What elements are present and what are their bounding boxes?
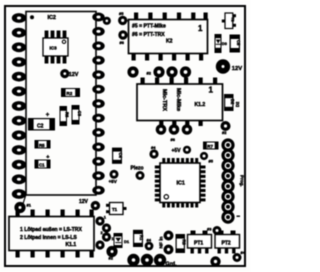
svg-text:NF in: NF in	[158, 236, 164, 248]
pad #3	[207, 226, 222, 235]
svg-text:+: +	[46, 155, 49, 161]
ground pads row	[127, 254, 166, 266]
transistor T1	[106, 203, 127, 215]
pad 2	[101, 223, 112, 234]
svg-text:1: 1	[198, 24, 203, 33]
12V pad (inside IC2 box)	[60, 69, 79, 78]
12V pad (below IC2 box right)	[79, 199, 100, 210]
svg-text:#5: #5	[119, 11, 124, 16]
12V pad (top right)	[216, 59, 242, 73]
svg-text:+5V: +5V	[172, 148, 182, 154]
transistor T2	[222, 13, 236, 29]
svg-text:C5: C5	[236, 40, 241, 46]
pad 1 (right of K1.1)	[95, 215, 106, 226]
svg-text:12V: 12V	[232, 66, 242, 72]
wire pad #5 to K2	[123, 20, 129, 22]
resistor R1	[133, 230, 144, 247]
svg-text:#4: #4	[241, 250, 246, 255]
capacitor C3	[72, 105, 82, 125]
svg-text:C2: C2	[37, 123, 44, 129]
svg-text:#2: #2	[147, 71, 152, 76]
pad 3	[102, 232, 115, 241]
svg-text:Mic-TRX: Mic-TRX	[161, 89, 167, 111]
svg-text:T2: T2	[231, 17, 236, 22]
NF pads pair	[164, 231, 174, 255]
svg-text:R2: R2	[66, 91, 72, 96]
svg-text:#5: #5	[209, 159, 214, 164]
svg-text:#1: #1	[27, 203, 32, 208]
IC3 (SO-8)	[43, 31, 68, 64]
svg-text:#6 = PTT-TRX: #6 = PTT-TRX	[132, 32, 165, 38]
resistor R5	[35, 140, 51, 149]
svg-text:Prog.: Prog.	[240, 175, 245, 187]
+5V pad (left)	[109, 170, 119, 184]
svg-text:Mic-Mike: Mic-Mike	[175, 88, 181, 111]
svg-text:R5: R5	[39, 143, 45, 148]
pad #2 (big, below D1)	[106, 246, 117, 261]
left solder-pad column (13 pads)	[12, 13, 26, 199]
resistor R2	[61, 88, 80, 97]
trimmer PT1	[188, 231, 212, 254]
svg-text:1: 1	[209, 86, 214, 95]
resistor R3	[176, 234, 187, 253]
svg-text:IC1: IC1	[177, 181, 185, 187]
Piezo pad	[136, 171, 145, 180]
IC2 pin-1 dot	[30, 15, 34, 19]
svg-text:#5 = PTT-Mike: #5 = PTT-Mike	[132, 24, 166, 30]
resistor R7	[203, 142, 219, 150]
connector K1.1 box	[9, 210, 94, 258]
svg-text:K1.1: K1.1	[66, 242, 77, 248]
wire from IC2 box to pad #1	[22, 195, 26, 207]
pad #6	[118, 30, 127, 45]
pad #5 (right of IC1)	[200, 152, 214, 164]
diode D1	[114, 233, 130, 248]
svg-text:C4: C4	[118, 153, 123, 159]
connector K2 box	[129, 13, 208, 61]
pad #4 (NF)	[145, 238, 154, 251]
svg-text:D1: D1	[124, 239, 130, 244]
pad #4 (bottom right)	[233, 250, 246, 262]
+5V pad (top of IC1)	[172, 146, 192, 154]
diode D3	[215, 34, 228, 53]
svg-text:PT2: PT2	[222, 241, 231, 247]
svg-text:Grd.: Grd.	[166, 262, 178, 268]
connector K1.2 box	[137, 78, 223, 127]
capacitor C2	[28, 113, 55, 131]
IC2 module box	[26, 12, 96, 196]
pads below K1.2	[156, 124, 193, 135]
svg-text:12V: 12V	[69, 72, 79, 78]
svg-text:Piezo: Piezo	[131, 165, 144, 171]
svg-text:#2: #2	[109, 256, 114, 261]
svg-text:12V: 12V	[79, 199, 89, 205]
pad 4	[95, 240, 104, 249]
svg-text:+5V: +5V	[109, 179, 118, 184]
Prog header pads	[221, 138, 234, 223]
via pad (right of pad column row 1)	[103, 17, 111, 25]
svg-text:+: +	[46, 113, 50, 119]
right solder-pad column (13 pads)	[92, 13, 104, 195]
svg-text:R7: R7	[207, 144, 213, 149]
capacitor C4	[112, 148, 123, 164]
svg-text:D3: D3	[222, 41, 228, 46]
svg-text:K1.2: K1.2	[195, 102, 206, 108]
svg-text:T1: T1	[112, 207, 118, 212]
pads row above K1.2	[127, 66, 191, 77]
svg-text:#6: #6	[171, 137, 176, 142]
IC1 (QFP)	[155, 158, 206, 208]
svg-text:1 Lötpad außen = LS-TRX: 1 Lötpad außen = LS-TRX	[20, 227, 82, 233]
svg-text:C3: C3	[77, 111, 82, 117]
svg-text:PT1: PT1	[194, 241, 203, 247]
svg-text:#3: #3	[207, 227, 212, 232]
svg-text:R6: R6	[65, 112, 70, 118]
svg-text:C1: C1	[39, 163, 45, 168]
pad (bottom centre-right)	[210, 256, 220, 266]
capacitor C1	[35, 155, 51, 169]
svg-text:#2: #2	[222, 130, 227, 135]
svg-text:IC2: IC2	[48, 15, 56, 21]
svg-text:R1: R1	[139, 235, 144, 241]
diode D2	[224, 94, 240, 111]
pad #2 (right, below K1.2)	[221, 121, 231, 135]
svg-text:D2: D2	[235, 101, 240, 107]
trimmer PT2	[215, 231, 240, 254]
svg-text:K2: K2	[166, 39, 173, 45]
svg-text:IC3: IC3	[50, 46, 58, 51]
svg-text:R3: R3	[181, 240, 186, 246]
pad #1	[14, 202, 31, 213]
pad #4 (mid)	[149, 145, 158, 159]
pad #5	[118, 11, 127, 25]
svg-text:#6: #6	[120, 40, 125, 45]
capacitor C5	[230, 35, 242, 53]
svg-text:2 Lötpad innen = LS-LS: 2 Lötpad innen = LS-LS	[20, 235, 77, 241]
minus mark (next to bottom prog pad)	[237, 216, 241, 217]
board frame	[5, 6, 245, 266]
svg-text:#4: #4	[151, 145, 156, 150]
resistor R6	[60, 106, 70, 126]
